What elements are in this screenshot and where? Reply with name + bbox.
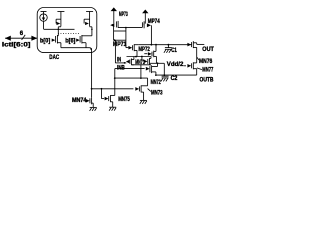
svg-text:C2: C2 <box>171 76 178 82</box>
svg-text:b[0]: b[0] <box>40 39 50 45</box>
svg-text:OUT: OUT <box>202 47 214 53</box>
svg-text:INB: INB <box>117 66 125 72</box>
svg-text:MN77: MN77 <box>202 68 213 74</box>
svg-text:MP74: MP74 <box>148 19 160 25</box>
svg-text:MN74: MN74 <box>72 98 87 104</box>
svg-text:Vdd/2: Vdd/2 <box>167 62 184 68</box>
svg-text:MP73: MP73 <box>119 12 128 18</box>
svg-text:MP72: MP72 <box>138 47 150 53</box>
svg-text:OUTB: OUTB <box>200 77 215 83</box>
svg-text:b[6]: b[6] <box>65 39 75 45</box>
svg-text:MP71: MP71 <box>113 42 127 48</box>
svg-text:MN76: MN76 <box>199 59 213 65</box>
svg-text:MN73: MN73 <box>151 91 163 97</box>
svg-text:MN72: MN72 <box>151 80 162 86</box>
svg-text:DAC: DAC <box>49 55 59 61</box>
svg-text:MN71: MN71 <box>135 60 145 66</box>
svg-text:C1: C1 <box>171 48 177 54</box>
svg-text:6: 6 <box>20 31 24 37</box>
svg-text:Ictl[6:0]: Ictl[6:0] <box>2 42 31 49</box>
svg-text:MN75: MN75 <box>118 97 130 103</box>
svg-text:IN: IN <box>117 58 121 64</box>
